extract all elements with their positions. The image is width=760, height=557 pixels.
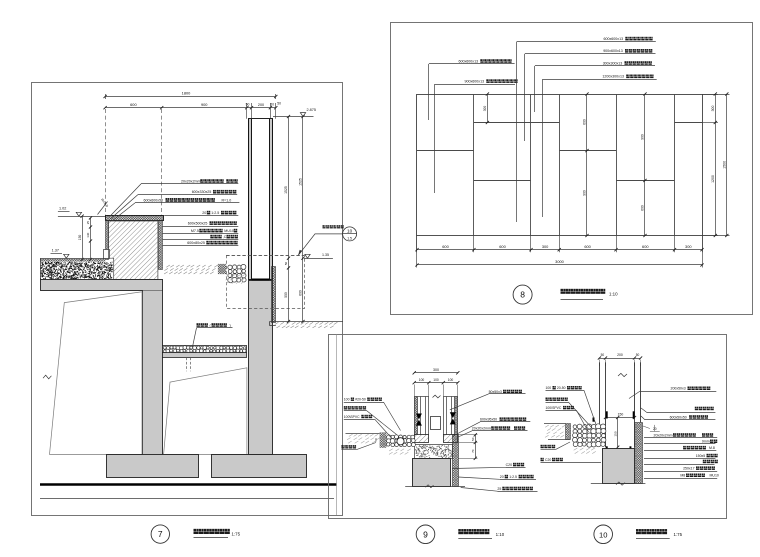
dim 1800 top	[105, 96, 276, 98]
d10 pebbles left	[573, 424, 606, 447]
svg-text:M8: M8	[680, 474, 685, 478]
gravel drainage layer slab	[163, 346, 247, 353]
d9 concrete gray block	[413, 459, 451, 487]
bottom total 3000	[417, 264, 702, 266]
svg-text:600x330x25: 600x330x25	[192, 190, 212, 194]
bench material labels with leaders	[141, 183, 238, 185]
svg-text:100: 100	[448, 378, 454, 382]
bench brick core hatched	[109, 221, 158, 279]
d10 anchors	[606, 411, 608, 418]
weep hole dashed	[186, 358, 188, 372]
gravel layer label	[197, 323, 208, 327]
d9 break top	[433, 395, 441, 398]
svg-text:600x600x13: 600x600x13	[604, 37, 624, 41]
svg-text:50: 50	[636, 353, 640, 357]
svg-text:50: 50	[284, 262, 288, 266]
d9 anchor right	[450, 412, 456, 418]
svg-text:100: 100	[433, 378, 439, 382]
svg-text:1200: 1200	[711, 175, 715, 183]
d10 foundation gray	[603, 449, 635, 484]
svg-text:200: 200	[617, 353, 623, 357]
retaining wall gray slab	[41, 280, 163, 291]
d9 right dim 50/70	[458, 434, 478, 436]
right vertical dims 1525/50/550/600	[288, 117, 290, 322]
inner dim col2 300	[487, 94, 489, 123]
inner dim col4 600/900	[586, 94, 588, 236]
svg-text:900: 900	[641, 134, 645, 140]
level 1.35	[305, 254, 310, 258]
svg-text:20-50: 20-50	[557, 386, 566, 390]
d9 ground left	[346, 433, 380, 435]
svg-text:10: 10	[347, 228, 353, 233]
svg-text:100\SPVC: 100\SPVC	[344, 415, 360, 419]
bottom dim row	[417, 249, 702, 251]
d9 coping hatched stones	[415, 435, 429, 443]
pebble fill left of pillar base	[228, 264, 246, 282]
bench block coping stone	[106, 216, 164, 221]
right total 1500	[726, 94, 728, 236]
svg-text:1500: 1500	[723, 161, 727, 169]
d9 anchor left	[416, 414, 422, 420]
svg-text:1:75: 1:75	[232, 532, 241, 537]
footing 2	[212, 455, 307, 478]
svg-text:1525: 1525	[284, 186, 288, 194]
d10 top dims 50/200/50	[599, 358, 640, 360]
svg-text:150x5: 150x5	[696, 454, 706, 458]
svg-text:600: 600	[641, 205, 645, 211]
svg-text:300: 300	[685, 244, 692, 249]
svg-text:,C: ,C	[223, 235, 227, 239]
svg-text:600: 600	[442, 244, 449, 249]
svg-text:): )	[230, 323, 231, 327]
bottom middle frame	[329, 335, 727, 519]
svg-text:600: 600	[299, 290, 303, 296]
svg-text:10: 10	[599, 530, 607, 539]
svg-text:600: 600	[130, 102, 137, 107]
svg-text:600: 600	[499, 244, 506, 249]
soil hatch between bench and pillar	[164, 265, 218, 274]
svg-text:300x300x13: 300x300x13	[603, 61, 623, 65]
d9 right outer xhatch strip	[455, 397, 458, 435]
svg-text:50: 50	[374, 438, 378, 442]
svg-text:C20: C20	[506, 463, 512, 467]
svg-text:550: 550	[284, 292, 288, 298]
drawing 8 frame	[391, 23, 753, 315]
title 10	[594, 525, 613, 544]
d9 dim 100x3	[414, 382, 458, 384]
svg-text:600x80x25: 600x80x25	[187, 241, 205, 245]
svg-text:100\SPVC: 100\SPVC	[546, 406, 562, 410]
svg-text:600: 600	[583, 119, 587, 125]
svg-text:MU10: MU10	[224, 229, 234, 233]
dim row 600/900/50/200/50	[105, 107, 276, 109]
d9 pebbles + pipe	[387, 435, 416, 447]
svg-text:900x600x13: 900x600x13	[603, 49, 623, 53]
d9 mortar speckle block	[415, 445, 453, 459]
svg-text:1.37: 1.37	[52, 248, 59, 252]
svg-text:1:75: 1:75	[674, 532, 683, 537]
d10 bottom line	[591, 483, 646, 485]
ground line right of pillar	[270, 321, 344, 323]
detail ref bubble 10	[343, 227, 357, 241]
svg-text:20: 20	[500, 475, 504, 479]
svg-text:20: 20	[653, 427, 657, 431]
svg-text:1:2.5: 1:2.5	[509, 475, 517, 479]
right dim 300/1200	[715, 94, 717, 236]
d10 dim 150 horizontal	[606, 417, 635, 419]
svg-text:9: 9	[423, 529, 428, 539]
svg-text:1525: 1525	[299, 178, 303, 186]
svg-text:50: 50	[277, 101, 281, 105]
svg-text:1200x300x13: 1200x300x13	[602, 75, 624, 79]
svg-text:900x600x13: 900x600x13	[465, 80, 485, 84]
svg-text:1.35: 1.35	[322, 253, 329, 257]
pillar base thick line	[252, 279, 270, 281]
break zigzag on trapezoid left edge	[43, 375, 51, 379]
title 9	[416, 525, 435, 544]
svg-text:50: 50	[601, 353, 605, 357]
d10 pillar lines	[599, 362, 601, 424]
footing 1	[107, 455, 199, 478]
d10 ground line left	[544, 423, 566, 425]
wall face trapezoid upper	[50, 292, 143, 455]
svg-text:R=1.0: R=1.0	[222, 198, 232, 202]
title 8	[513, 285, 532, 304]
right ext lines	[702, 94, 718, 96]
svg-text:1800: 1800	[182, 91, 191, 96]
dashed level line at pillar	[226, 255, 304, 257]
svg-text:300: 300	[542, 244, 549, 249]
svg-text:600x600x13: 600x600x13	[459, 59, 479, 63]
level mark 2.875	[273, 116, 314, 118]
svg-text:200: 200	[258, 103, 264, 107]
inner vertical line	[336, 335, 338, 515]
d10 right xhatch band	[635, 423, 643, 484]
svg-text:50: 50	[471, 437, 475, 441]
d9 center box	[431, 417, 441, 430]
bench left face strip	[106, 221, 109, 260]
baseline thin	[40, 498, 334, 500]
svg-text:25: 25	[86, 221, 90, 225]
left vertical dims 150/130	[82, 216, 84, 259]
svg-text:200x50x3: 200x50x3	[671, 387, 686, 391]
svg-text:100: 100	[344, 398, 350, 402]
svg-text:#20-50: #20-50	[355, 398, 366, 402]
svg-text:300: 300	[711, 106, 715, 112]
svg-text:300: 300	[483, 106, 487, 112]
svg-text:900: 900	[201, 102, 208, 107]
leader to bubble	[298, 234, 342, 255]
svg-text:3000: 3000	[555, 259, 564, 264]
bottom ext lines	[416, 236, 418, 253]
retaining wall stem	[142, 291, 162, 455]
panel grid outer rect	[417, 95, 703, 236]
svg-text:1:10: 1:10	[609, 291, 618, 296]
d10 left xhatch strip	[566, 424, 571, 440]
d9 bottom line	[405, 486, 465, 488]
svg-text:8: 8	[520, 290, 525, 300]
wall face trapezoid lower	[164, 368, 247, 455]
drawing 7 frame	[32, 83, 343, 516]
baseline thick	[40, 483, 337, 485]
svg-text:150: 150	[613, 431, 617, 436]
svg-text:250x17: 250x17	[683, 467, 695, 471]
svg-text:600x500x25: 600x500x25	[188, 222, 208, 226]
svg-text:20x20x2mm: 20x20x2mm	[181, 179, 201, 183]
panel horizontal joints	[417, 150, 474, 152]
d10 dim 150 vertical	[617, 418, 619, 448]
d9 fence posts verticals	[417, 397, 419, 435]
svg-text:50: 50	[270, 102, 274, 106]
svg-text:25: 25	[497, 487, 501, 491]
svg-text:1.02: 1.02	[59, 206, 66, 210]
svg-text:20x20x2mm: 20x20x2mm	[654, 433, 673, 437]
svg-text:150: 150	[78, 235, 82, 241]
d9 right xhatch band	[453, 435, 459, 487]
svg-text:M7.5: M7.5	[191, 229, 199, 233]
svg-text:900: 900	[583, 190, 587, 196]
title 7	[151, 525, 169, 543]
inner dim col5 900/600	[644, 94, 646, 236]
svg-text:1.5: 1.5	[347, 236, 352, 240]
svg-text:1:10: 1:10	[496, 532, 505, 537]
dashed excavation box	[227, 256, 305, 309]
svg-text:C20: C20	[545, 458, 551, 462]
extension lines dims	[105, 94, 107, 99]
pillar anchor bolts	[252, 281, 254, 286]
svg-text:600: 600	[584, 244, 591, 249]
svg-text:600x95x50: 600x95x50	[480, 418, 497, 422]
svg-text:20x20x2mm: 20x20x2mm	[472, 426, 491, 430]
svg-text:2.875: 2.875	[307, 108, 317, 112]
svg-text:600x600x50: 600x600x50	[144, 198, 164, 202]
bench right face strip	[159, 221, 163, 270]
svg-text:600: 600	[642, 244, 649, 249]
svg-text:300: 300	[433, 368, 439, 372]
svg-text:600x50x50: 600x50x50	[670, 415, 687, 419]
pillar foundation below	[249, 281, 273, 455]
pillar right buried cladding xhatch	[272, 267, 276, 323]
d9 left outer xhatch strip	[414, 397, 417, 435]
R=1.0 note	[98, 202, 108, 215]
svg-text:20: 20	[202, 211, 206, 215]
svg-text:MU10: MU10	[710, 474, 719, 478]
panel vertical joints	[473, 94, 475, 236]
svg-text:130: 130	[86, 232, 90, 237]
grid dashed lines	[105, 109, 107, 216]
svg-text:9mm: 9mm	[702, 440, 710, 444]
svg-text:100: 100	[419, 378, 425, 382]
svg-text:7: 7	[158, 529, 163, 539]
svg-text:100: 100	[546, 386, 552, 390]
ground crosshatch + gravel fill under 1.37	[40, 258, 42, 279]
svg-text:1:2.5: 1:2.5	[211, 211, 219, 215]
pillar (column) with stone cladding	[252, 119, 270, 280]
bench riser stone bottom left	[104, 250, 110, 259]
xhatch ground left of box	[218, 264, 226, 274]
svg-text:M.8: M.8	[709, 446, 715, 450]
d9 top dim 300	[414, 372, 458, 374]
svg-text:70: 70	[471, 449, 475, 453]
